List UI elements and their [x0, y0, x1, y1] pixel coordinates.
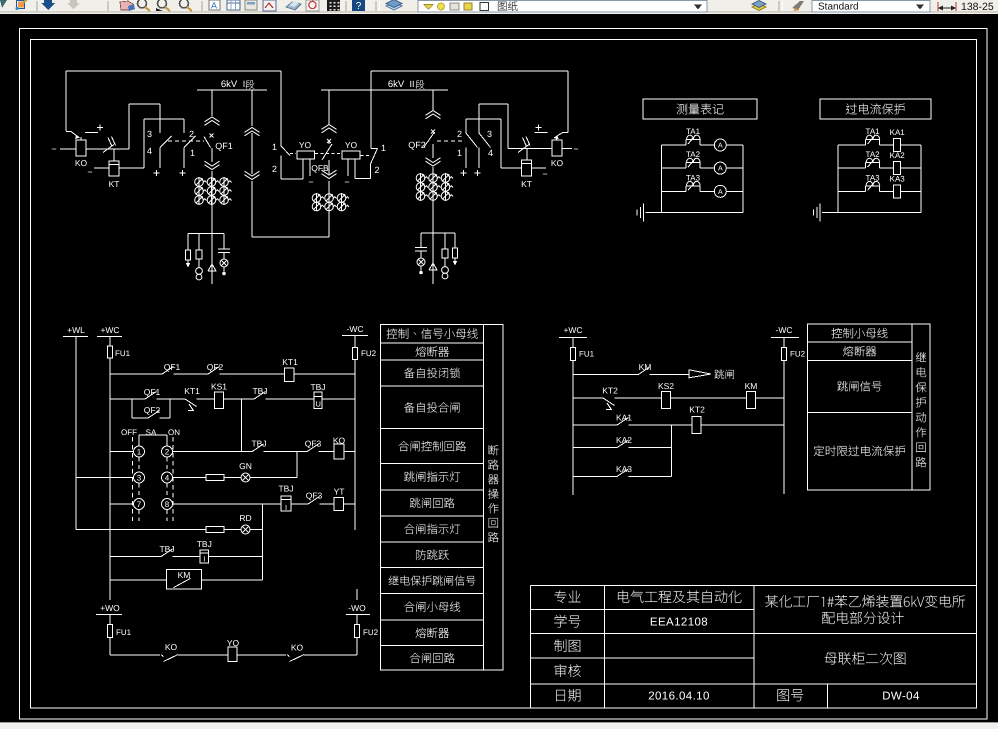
toolbar icon pencil-edit — [0, 0, 7, 8]
svg-text:3: 3 — [137, 474, 142, 483]
svg-text:+WC: +WC — [100, 325, 119, 335]
svg-text:7: 7 — [137, 500, 142, 509]
svg-text:ON: ON — [168, 428, 180, 437]
svg-text:138-25: 138-25 — [961, 1, 994, 13]
svg-text:TA3: TA3 — [866, 173, 881, 182]
table row 定时限过电流保护 — [814, 446, 905, 457]
rowB wire trip signal relays — [573, 397, 603, 399]
table row 防跳跃 — [416, 550, 449, 560]
svg-text:A: A — [718, 166, 723, 173]
svg-text:EEA12108: EEA12108 — [650, 617, 708, 629]
svg-text:TA3: TA3 — [686, 173, 701, 182]
table row 合闸控制回路 — [399, 441, 466, 451]
wire minus to KT — [94, 167, 109, 169]
drawout plug QF1 top — [205, 117, 220, 125]
title cell 审核 — [555, 664, 581, 677]
toolbar separator — [36, 1, 38, 11]
table row 合闸指示灯 — [404, 524, 460, 534]
svg-text:FU1: FU1 — [116, 628, 132, 637]
svg-text:1: 1 — [190, 148, 195, 158]
fuse FU2 right — [782, 348, 787, 361]
svg-text:−: − — [573, 144, 578, 154]
table row 跳闸信号 — [837, 381, 881, 391]
relay KT1 coil — [285, 368, 294, 382]
breaker QF1 feeder — [211, 90, 213, 116]
svg-text:DW-04: DW-04 — [882, 691, 920, 703]
svg-text:II: II — [409, 79, 414, 89]
breaker QF2 blade — [424, 132, 435, 147]
bus 6kV I — [197, 89, 267, 91]
contact KO-a right with plus — [536, 127, 542, 129]
row4 wire green lamp — [76, 477, 134, 479]
wire top-right loop — [371, 70, 568, 72]
svg-text:2: 2 — [189, 129, 194, 139]
table row 合闸回路 — [410, 653, 455, 663]
svg-text:1: 1 — [381, 143, 386, 153]
arrow on QF1 feeder — [208, 264, 216, 271]
toolbar icon sheet-set — [245, 0, 257, 10]
title cell 专业 — [554, 590, 580, 603]
wire minus to KO — [60, 148, 76, 150]
rowE wire KA3 — [573, 475, 617, 477]
svg-text:-WO: -WO — [348, 603, 366, 613]
svg-text:Standard: Standard — [818, 2, 859, 13]
svg-text:4: 4 — [488, 148, 493, 158]
svg-text:1: 1 — [457, 148, 462, 158]
svg-text:?: ? — [356, 1, 362, 12]
table row 跳闸回路 — [410, 498, 455, 508]
ammeter A2 — [714, 162, 726, 174]
fuse FU1 closing — [108, 625, 113, 638]
switch SA dashed columns — [132, 437, 134, 521]
toolbar separator — [201, 1, 203, 11]
svg-text:2: 2 — [375, 165, 380, 175]
svg-text:−: − — [87, 167, 92, 177]
trip coil YO right — [342, 151, 360, 159]
CT group TA QFB — [316, 193, 318, 211]
svg-text:+WC: +WC — [563, 325, 582, 335]
svg-text:YO: YO — [345, 140, 358, 150]
linkage dashes QF2 — [437, 140, 462, 142]
toolbar layer dropdown — [418, 1, 707, 13]
svg-text:TBJ: TBJ — [278, 484, 293, 494]
toolbar icon table — [227, 0, 240, 10]
svg-text:4: 4 — [147, 146, 152, 156]
svg-text:KA2: KA2 — [890, 151, 906, 160]
svg-text:6kV: 6kV — [388, 79, 405, 90]
svg-text:QF3: QF3 — [306, 491, 323, 501]
arrow on QF2 feeder — [429, 263, 437, 270]
linkage dashes QFB — [290, 153, 296, 155]
relay KT left — [109, 161, 119, 176]
toolbar icon text-find — [209, 0, 220, 10]
wire KT contact right — [508, 148, 552, 150]
CT TA2 overcurrent row — [838, 167, 866, 169]
toolbar icon layer-states — [752, 4, 766, 11]
label box measurement — [643, 99, 757, 119]
wire row2-row3 drop — [241, 399, 243, 452]
ground measurement — [643, 204, 645, 222]
rowD wire KA2 — [573, 447, 617, 449]
fuse arrester QF1 — [187, 234, 189, 251]
svg-text:YT: YT — [334, 487, 345, 497]
drawout plug riser top — [245, 128, 260, 136]
svg-text:−: − — [308, 177, 313, 187]
title cell 图号 — [778, 689, 804, 701]
fuse FU2 closing — [355, 625, 360, 638]
svg-text:OFF: OFF — [121, 428, 137, 437]
svg-text:FU2: FU2 — [790, 350, 806, 359]
svg-text:GN: GN — [239, 461, 252, 471]
relay KO left — [76, 140, 86, 156]
breaker QF1 blade — [204, 137, 211, 148]
row3 wire closing control — [110, 451, 134, 453]
CT TA1 overcurrent row — [838, 144, 866, 146]
row5 wire trip circuit — [110, 503, 134, 505]
svg-text:QF1: QF1 — [144, 387, 161, 397]
CT TA3 overcurrent row — [838, 190, 866, 192]
meter PJ QF1 — [198, 234, 200, 251]
toolbar icon help — [352, 0, 365, 11]
toolbar icon zoom window — [158, 0, 167, 8]
capacitor-lamp branch QF1 — [223, 234, 225, 250]
svg-text:FU1: FU1 — [579, 350, 595, 359]
svg-text:8: 8 — [165, 500, 170, 509]
ammeter A3 — [714, 185, 726, 197]
svg-text:A: A — [718, 143, 723, 150]
contact KO-a with plus — [97, 127, 103, 129]
row7 wire anti-pumping — [110, 556, 161, 558]
CT TA3 measurement row — [662, 190, 687, 192]
branch QF2 metering — [421, 232, 455, 234]
svg-text:TA2: TA2 — [866, 150, 881, 159]
linkage dashes QF1 — [168, 140, 204, 142]
rowC wire KA1-KT2 — [573, 424, 617, 426]
breaker QFB blade — [322, 144, 332, 160]
row1 wire interlock — [110, 373, 162, 375]
svg-text:TA1: TA1 — [686, 127, 701, 136]
toolbar separator — [107, 1, 109, 11]
svg-text:KO: KO — [291, 643, 304, 653]
svg-text:-WC: -WC — [347, 324, 364, 334]
label box overcurrent — [820, 99, 931, 119]
title cell 制图 — [554, 639, 580, 652]
bus -WO — [356, 589, 358, 600]
fuse FU1 right — [571, 348, 576, 361]
overcurrent circuit frame — [837, 145, 839, 213]
svg-text:−: − — [542, 169, 547, 179]
breaker QF2 feeder — [432, 90, 434, 110]
table row 熔断器 — [416, 346, 449, 356]
svg-text:KS2: KS2 — [658, 381, 674, 391]
ammeter A1 — [714, 139, 726, 151]
aux contact QFB right 1-2 — [370, 90, 372, 148]
relay KO right — [552, 140, 562, 156]
svg-text:QF2: QF2 — [144, 405, 161, 415]
toolbar icon zoom previous — [180, 0, 189, 8]
status bar bottom — [0, 723, 998, 729]
svg-text:KM: KM — [745, 381, 758, 391]
drawout plug QFB bottom — [322, 170, 337, 178]
title cell 学号 — [554, 615, 580, 628]
toolbar icon pan-hand — [120, 1, 133, 10]
toolbar icon materials — [327, 0, 340, 11]
wire row3-row4 drop — [296, 452, 298, 478]
svg-text:1: 1 — [272, 142, 277, 152]
relay KA3 coil — [894, 185, 901, 198]
svg-text:3: 3 — [147, 129, 152, 139]
svg-text:TA1: TA1 — [866, 127, 881, 136]
svg-text:FU1: FU1 — [115, 349, 131, 358]
switch SA dashed shafts — [138, 457, 140, 471]
svg-text:KO: KO — [551, 158, 564, 168]
svg-text:KA3: KA3 — [616, 464, 632, 474]
svg-text:QF1: QF1 — [215, 141, 233, 151]
wire hook lower right — [466, 118, 501, 120]
rowA wire KM trip signal — [573, 374, 638, 376]
wire hook upper right — [479, 103, 508, 105]
svg-text:KO: KO — [75, 158, 88, 168]
relay KA2 coil — [894, 162, 901, 175]
svg-text:I: I — [243, 79, 246, 89]
relay KT right — [522, 160, 532, 176]
svg-text:KA3: KA3 — [890, 174, 906, 183]
table row 控制、信号小母线 — [387, 328, 478, 338]
svg-text:2: 2 — [272, 164, 277, 174]
toolbar icon dim-style — [938, 7, 956, 9]
drawout plug QF1 bottom — [205, 161, 220, 169]
svg-text:KA1: KA1 — [890, 128, 906, 137]
switch SA contacts 7-8 — [134, 499, 145, 510]
ground overcurrent — [819, 204, 821, 222]
svg-text:KO: KO — [165, 642, 178, 652]
switch SA contacts 3-4 — [134, 472, 145, 483]
table row 合闸小母线 — [404, 602, 460, 612]
contact KT delayed — [103, 145, 114, 153]
toolbar double separator — [778, 1, 780, 11]
svg-text:I: I — [285, 503, 287, 512]
table breaker-operation outline — [381, 324, 503, 670]
drawout plug QF2 top — [426, 111, 441, 119]
svg-text:SA: SA — [146, 428, 157, 437]
svg-text:−: − — [51, 144, 56, 154]
svg-text:RD: RD — [239, 513, 251, 523]
switch SA crossbar — [139, 434, 167, 436]
table row 跳闸指示灯 — [404, 471, 460, 481]
svg-text:4: 4 — [165, 474, 170, 483]
row8 wire KM signal — [110, 579, 167, 581]
title cell 电气工程及其自动化 — [618, 590, 741, 603]
svg-text:−: − — [344, 177, 349, 187]
trip coil YO left — [297, 151, 315, 159]
drawout plug QFB top — [322, 125, 337, 133]
svg-text:KS1: KS1 — [211, 382, 227, 392]
svg-text:FU2: FU2 — [361, 349, 377, 358]
svg-text:KT1: KT1 — [184, 386, 200, 396]
capacitor-lamp branch QF2 — [420, 233, 422, 248]
svg-text:KT: KT — [109, 179, 120, 189]
toolbar background — [0, 0, 998, 11]
svg-text:TBJ: TBJ — [197, 539, 212, 549]
wire top-left loop — [66, 70, 281, 72]
svg-text:KM: KM — [178, 570, 191, 580]
switch SA contacts 1-2 — [134, 446, 145, 457]
relay KM box — [167, 569, 202, 589]
table relay-protection outline — [808, 324, 931, 490]
svg-text:+WO: +WO — [100, 603, 120, 613]
table row 备自投合闸 — [404, 402, 459, 412]
relay KA1 coil — [894, 139, 901, 152]
svg-text:KT: KT — [521, 179, 532, 189]
resistor row4 — [206, 475, 224, 481]
svg-text:KT1: KT1 — [282, 357, 298, 367]
row9 wire closing circuit — [110, 654, 160, 656]
relay KS1 coil — [215, 392, 224, 408]
svg-text:3: 3 — [487, 129, 492, 139]
title project name — [765, 595, 965, 608]
toolbar double separator — [375, 1, 377, 11]
drawout plug QF2 bottom — [426, 158, 441, 166]
svg-text:FU2: FU2 — [363, 628, 379, 637]
svg-text:KA1: KA1 — [616, 413, 632, 423]
svg-text:2: 2 — [457, 129, 462, 139]
table row 继电保护跳闸信号 — [389, 576, 476, 586]
wire tie bottom — [252, 236, 329, 238]
wire bus-I riser — [251, 90, 253, 126]
meter PJ QF2 — [444, 233, 446, 249]
row6 wire red lamp — [76, 529, 206, 531]
wire KA junction drop — [670, 425, 672, 476]
bus 6kV II — [321, 89, 448, 91]
drawout plug riser bottom — [245, 171, 260, 179]
toolbar icon render — [306, 0, 319, 11]
table column relay-protection vertical text — [916, 352, 926, 362]
svg-text:A: A — [718, 189, 723, 196]
table column breaker-operation vertical text — [489, 445, 499, 455]
table row 熔断器 — [843, 346, 876, 356]
wire KT to riser — [119, 167, 144, 169]
CT TA2 measurement row — [662, 167, 687, 169]
svg-text:YO: YO — [299, 140, 312, 150]
wire hook lower left — [144, 118, 184, 120]
toolbar icon layer-properties — [386, 2, 402, 10]
bus +WO — [109, 580, 111, 600]
CT group TA QF1 — [198, 177, 200, 205]
svg-text:2016.04.10: 2016.04.10 — [648, 691, 710, 703]
table row 备自投闭锁 — [404, 368, 460, 378]
toolbar icon properties-painter — [792, 1, 804, 10]
title cell 日期 — [556, 689, 580, 702]
svg-text:1: 1 — [137, 448, 142, 457]
svg-text:6kV: 6kV — [221, 79, 238, 90]
toolbar icon markup — [263, 0, 276, 11]
svg-text:+WL: +WL — [67, 325, 85, 335]
toolbar icon down-arrow — [41, 0, 55, 10]
wire right drop rows5-8 — [262, 504, 264, 580]
CT group TA QF2 — [420, 173, 422, 201]
table row 控制小母线 — [832, 328, 888, 338]
fuse arrester QF2 — [454, 233, 456, 248]
toolbar icon 3d-surface — [286, 2, 301, 10]
svg-text:2: 2 — [165, 448, 170, 457]
svg-text:QF2: QF2 — [408, 140, 426, 150]
svg-text:TBJ: TBJ — [310, 382, 325, 392]
row2 wire autoclose — [110, 398, 145, 400]
title block outline — [530, 584, 976, 586]
svg-text:A: A — [211, 1, 217, 11]
svg-text:KT2: KT2 — [602, 386, 618, 396]
breaker QFB feeder — [328, 90, 330, 124]
measurement circuit frame — [661, 145, 663, 213]
branch QF1 metering — [188, 233, 224, 235]
fuse FU2 left — [353, 348, 358, 360]
signal arrow trip — [688, 369, 690, 378]
toolbar icon zoom realtime — [138, 0, 147, 8]
CT TA1 measurement row — [662, 144, 687, 146]
svg-text:QFB: QFB — [311, 163, 329, 173]
toolbar style dropdown Standard — [812, 1, 930, 13]
svg-text:QF2: QF2 — [207, 362, 224, 372]
toolbar separator — [345, 1, 347, 11]
svg-text:TA2: TA2 — [686, 150, 701, 159]
title drawing name 母联柜二次图 — [825, 652, 906, 665]
toolbar icon down-arrow disabled — [67, 0, 80, 9]
svg-text:I: I — [203, 555, 205, 564]
wire hook upper left — [129, 103, 160, 105]
wire KO to KT contact — [86, 148, 104, 150]
svg-text:U: U — [315, 400, 320, 409]
svg-text:KT2: KT2 — [689, 405, 705, 415]
fuse FU1 left — [108, 346, 113, 358]
resistor row6 — [206, 527, 224, 533]
parallel branch QF2 — [131, 399, 133, 418]
svg-text:-WC: -WC — [776, 325, 793, 335]
table row 熔断器 — [416, 628, 449, 638]
